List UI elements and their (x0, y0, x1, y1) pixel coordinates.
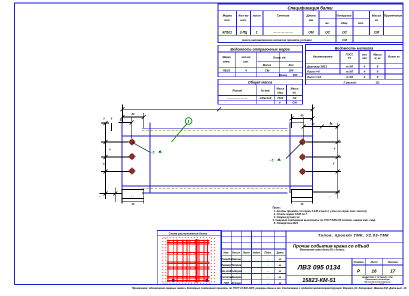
svg-text:кол-во: кол-во (242, 56, 251, 59)
svg-text:ГИП: ГИП (224, 281, 229, 285)
svg-text:Кол.уч: Кол.уч (232, 251, 241, 254)
bolt R1 (299, 138, 306, 145)
layout plan red dots (162, 237, 215, 284)
left weld leader (133, 143, 150, 153)
table A: specification table (Spetsifikatsiya balki) (218, 4, 403, 43)
main top dimension line (121, 105, 315, 123)
layout plan title underline (157, 235, 221, 237)
svg-text:Козлов: Козлов (232, 281, 242, 285)
right end plate edge (312, 123, 314, 190)
table B: shipping marks list (218, 45, 303, 77)
title block divider (285, 231, 287, 285)
svg-text:Кол: Кол (289, 63, 294, 67)
bolt R3 (299, 168, 306, 175)
svg-text:Масса: Масса (372, 14, 382, 18)
svg-text:мм: мм (309, 18, 314, 22)
svg-text:№ вед.: № вед. (261, 89, 271, 93)
layout plan blue corner marks (172, 279, 174, 282)
svg-text:ЛБ01: ЛБ01 (222, 68, 231, 72)
right plate bottom dimension (292, 198, 313, 204)
beam: top flange hidden dashed line (142, 130, 288, 132)
svg-text:4: 4 (244, 68, 247, 72)
right weld symbol (270, 158, 281, 163)
beam: bottom flange hidden dashed line (142, 188, 288, 190)
svg-text:Разраб.: Разраб. (221, 257, 231, 261)
svg-text:Лист t=10: Лист t=10 (306, 75, 322, 79)
svg-text:Сечение: Сечение (277, 14, 290, 18)
svg-text:шт.: шт. (240, 18, 246, 22)
svg-text:Монтажная схема балки Б1 с узл: Монтажная схема балки Б1 с узлами (300, 249, 345, 252)
left end plate bottom tab (black) (122, 190, 144, 199)
svg-text:1: 1 (256, 31, 258, 35)
svg-text:шт: шт (362, 57, 367, 60)
svg-text:16: 16 (371, 268, 377, 273)
beam: bottom flange outer line (142, 192, 288, 194)
svg-text:кол.: кол. (358, 21, 364, 25)
bolt R2 (299, 153, 306, 160)
svg-text:Лист: Лист (242, 251, 251, 254)
svg-text:м, кг: м, кг (374, 57, 381, 60)
table D: total mass table (218, 79, 303, 104)
svg-text:Ведомость металла: Ведомость металла (335, 47, 374, 51)
right bolt offset dimension (291, 117, 340, 142)
svg-text:— — — — — —: — — — — — — (226, 97, 247, 100)
svg-text:вс.: вс. (325, 21, 329, 25)
svg-text:Ведомость отправочных марок: Ведомость отправочных марок (230, 48, 289, 52)
svg-text:Двутавр 30Б1: Двутавр 30Б1 (306, 64, 327, 68)
title block right grid (286, 243, 403, 285)
svg-text:Масса: Масса (263, 63, 272, 67)
svg-text:Масса: Масса (291, 88, 299, 91)
layout plan red grid (167, 239, 210, 282)
svg-text:г. Москва 2004 г.: г. Москва 2004 г. (369, 283, 387, 286)
beam: top flange inner full-width line (122, 135, 313, 137)
svg-text:Спецификация балки: Спецификация балки (287, 5, 333, 10)
svg-text:ОЗ: ОЗ (293, 96, 297, 100)
svg-text:ОС: ОС (342, 31, 347, 35)
svg-text:Дата: Дата (276, 251, 284, 254)
svg-text:111: 111 (375, 80, 380, 84)
title block outer (222, 231, 403, 285)
svg-text:СМ: СМ (265, 68, 270, 72)
svg-text:ед.: ед. (293, 91, 297, 94)
beam: bottom flange inner full-width line (122, 185, 313, 187)
left dimension chain vertical (100, 121, 135, 202)
svg-text:Всего: Всего (279, 73, 288, 77)
svg-text:Наименование: Наименование (313, 55, 333, 59)
left plate bottom dimension (122, 199, 144, 204)
svg-text:⌐5: ⌐5 (151, 151, 155, 155)
svg-text:184: 184 (289, 68, 294, 72)
svg-text:Листов: Листов (387, 261, 398, 264)
svg-text:Отгрузка: Отгрузка (337, 13, 352, 17)
svg-text:общ.: общ. (277, 91, 283, 94)
svg-text:ПОЗ: ПОЗ (278, 96, 284, 100)
svg-text:Макаров: Макаров (231, 275, 243, 279)
svg-text:Примечание: обозначения сварны: Примечание: обозначения сварных швов и б… (132, 287, 407, 290)
right dimension chain vertical (305, 123, 342, 199)
svg-text:Отгр. ед.: Отгр. ед. (273, 56, 286, 60)
table C: metal list (306, 45, 404, 85)
svg-text:Сидоров: Сидоров (231, 269, 243, 273)
svg-text:Марка: Марка (222, 55, 231, 59)
svg-text:4: 4 (363, 75, 366, 79)
svg-text:4: 4 (363, 70, 366, 74)
svg-text:шт.: шт. (243, 60, 249, 63)
svg-text:17: 17 (390, 268, 396, 273)
title block left grid (222, 231, 286, 285)
svg-text:15823-КМ-51: 15823-КМ-51 (302, 278, 336, 284)
svg-text:Подп.: Подп. (264, 251, 271, 254)
svg-text:элем.: элем. (223, 60, 231, 63)
svg-text:т ХЛ: т ХЛ (346, 75, 353, 79)
svg-text:СМ: СМ (342, 38, 347, 42)
svg-text:5. Отверстия Ø23: 5. Отверстия Ø23 (274, 221, 299, 225)
left beam web end vertical (149, 123, 151, 194)
svg-text:Типов. проект ТМК, У2.03-ТМК: Типов. проект ТМК, У2.03-ТМК (318, 233, 389, 238)
svg-text:Примечание: Примечание (384, 14, 403, 18)
svg-text:Петров: Петров (231, 263, 242, 267)
svg-text:масса наплавленного металла пр: масса наплавленного металла принята усло… (242, 38, 312, 42)
svg-text:Масса: Масса (277, 88, 285, 91)
left end plate edge (121, 123, 123, 190)
svg-text:поз.: поз. (224, 18, 230, 22)
svg-text:Стадия: Стадия (354, 261, 364, 264)
right plate width dimension (290, 114, 315, 128)
left bolt offset dimension (119, 117, 134, 142)
right beam web end vertical (289, 123, 291, 194)
balloon leader (172, 124, 187, 142)
left weld symbol (151, 150, 162, 155)
svg-text:СМ: СМ (374, 31, 379, 35)
svg-text:ОС: ОС (325, 31, 330, 35)
svg-text:ГОСТ,: ГОСТ, (346, 52, 354, 56)
svg-text:т ХЛ: т ХЛ (346, 64, 353, 68)
svg-text:ОМ: ОМ (308, 31, 313, 35)
svg-text:Лист t=8: Лист t=8 (306, 70, 320, 74)
bolt L1 (128, 138, 135, 145)
beam: top flange outer line (142, 127, 288, 129)
svg-text:Общая масса: Общая масса (248, 81, 272, 85)
svg-text:ЛВЗ 095 0134: ЛВЗ 095 0134 (297, 265, 341, 272)
svg-text:— — — — —: — — — — — (272, 31, 293, 35)
svg-text:кол: кол (362, 53, 367, 56)
svg-text:ТУ: ТУ (348, 56, 352, 60)
layout plan box (157, 231, 221, 285)
bolt L3 (128, 167, 135, 174)
svg-text:кг: кг (375, 18, 379, 22)
svg-text:Прочие события крана со объид: Прочие события крана со объид (293, 242, 369, 248)
svg-text:лист: лист (252, 14, 261, 18)
svg-text:Иванов: Иванов (231, 257, 241, 261)
left plate width dimension (121, 113, 146, 128)
svg-text:№док.: №док. (253, 251, 261, 254)
svg-text:общ.: общ. (341, 21, 348, 25)
svg-text:Лист: Лист (370, 261, 379, 264)
svg-text:Длина: Длина (305, 14, 316, 18)
svg-text:4: 4 (363, 64, 366, 68)
svg-text:⌐5: ⌐5 (270, 159, 274, 163)
svg-text:тРасход: тРасход (260, 96, 272, 100)
svg-text:Масса: Масса (373, 52, 382, 56)
svg-text:Схема расположения балок: Схема расположения балок (169, 232, 208, 236)
svg-text:Всего кг: Всего кг (388, 55, 400, 59)
svg-text:Марка: Марка (223, 14, 233, 18)
svg-text:2-ПЦ: 2-ПЦ (239, 31, 248, 35)
right end plate bottom tab (black) (292, 190, 313, 198)
svg-text:Расход: Расход (233, 89, 243, 93)
svg-text:т ХЛ: т ХЛ (346, 70, 353, 74)
svg-text:Изм.: Изм. (224, 251, 230, 254)
svg-text:КЛ101: КЛ101 (222, 31, 232, 35)
bolt L2 (128, 153, 135, 160)
position balloon 1 (185, 118, 192, 125)
right weld leader (286, 143, 302, 159)
svg-text:184: 184 (293, 73, 298, 77)
svg-text:Кол-во: Кол-во (239, 14, 249, 18)
svg-text:1: 1 (188, 120, 190, 124)
svg-text:Σ расход:: Σ расход: (342, 80, 356, 84)
